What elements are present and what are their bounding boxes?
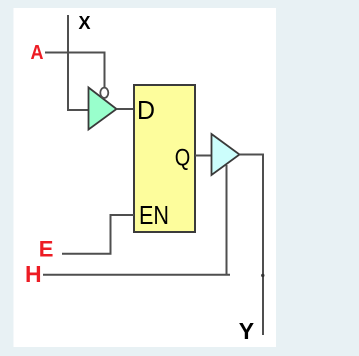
- tri-state buffer U1 (green): [89, 88, 117, 130]
- enable bubble on U1: [100, 88, 108, 98]
- junction dot on Y wire: [261, 274, 264, 277]
- D latch U2 (yellow box): [134, 85, 195, 232]
- svg-text:Y: Y: [239, 318, 254, 344]
- white canvas: [14, 8, 277, 347]
- wire U1 output to D input: [117, 108, 135, 110]
- wire A to enable bubble: [45, 53, 105, 89]
- svg-text:A: A: [31, 42, 44, 64]
- svg-text:X: X: [79, 13, 91, 33]
- svg-text:Q: Q: [175, 145, 191, 172]
- svg-text:H: H: [25, 261, 42, 287]
- svg-text:E: E: [39, 237, 54, 262]
- wire Q output to buffer U3: [195, 155, 212, 157]
- wire H to U3 enable: [43, 165, 230, 275]
- tri-state buffer U3 (cyan): [212, 134, 240, 175]
- svg-text:D: D: [137, 95, 155, 125]
- wire X vertical into buffer input: [68, 15, 89, 110]
- wire U3 output to Y: [240, 155, 264, 336]
- wire E to EN pin: [62, 215, 134, 254]
- svg-text:EN: EN: [139, 200, 169, 230]
